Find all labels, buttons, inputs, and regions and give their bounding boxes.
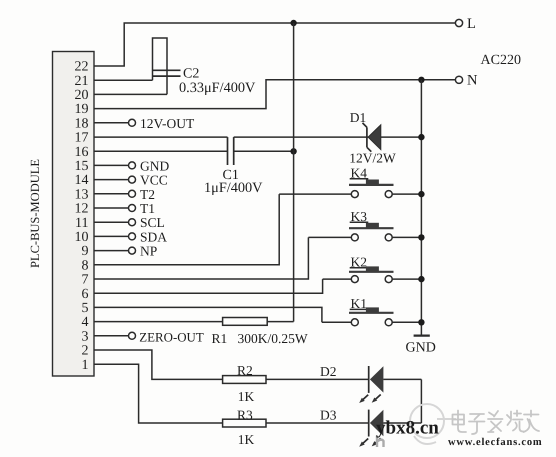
watermark gray h glyph xyxy=(377,436,384,448)
zener diode D1 xyxy=(363,123,381,152)
node K4/bus xyxy=(418,191,424,197)
svg-text:GND: GND xyxy=(406,341,436,356)
svg-text:10: 10 xyxy=(75,230,89,245)
svg-text:R3: R3 xyxy=(237,408,253,423)
resistor R1 xyxy=(94,321,223,323)
svg-text:22: 22 xyxy=(75,60,89,75)
svg-text:4: 4 xyxy=(82,315,89,330)
pin18 terminal 12V-OUT xyxy=(94,122,129,124)
svg-text:15: 15 xyxy=(75,159,89,174)
LED D3 xyxy=(359,410,421,447)
svg-text:ZERO-OUT: ZERO-OUT xyxy=(139,330,204,344)
ground xyxy=(414,335,430,337)
wire R3 to D3 xyxy=(266,422,368,424)
module box PLC-BUS-MODULE xyxy=(53,52,95,377)
switch K3 xyxy=(308,209,421,241)
svg-text:R1: R1 xyxy=(212,331,228,346)
svg-text:GND: GND xyxy=(140,158,169,173)
svg-text:16: 16 xyxy=(75,145,89,160)
svg-text:T1: T1 xyxy=(140,201,155,216)
terminal pins group (GND VCC T2 T1 SCL SDA NP) xyxy=(94,158,169,258)
svg-text:L: L xyxy=(467,16,476,32)
svg-text:SCL: SCL xyxy=(140,215,165,230)
svg-text:300K/0.25W: 300K/0.25W xyxy=(238,331,308,346)
svg-text:ybx8.cn: ybx8.cn xyxy=(376,418,439,439)
svg-text:14: 14 xyxy=(75,173,89,188)
pin numbers xyxy=(75,60,89,373)
svg-text:17: 17 xyxy=(75,131,89,146)
switch K4 xyxy=(279,165,421,197)
wire R2 to D2 xyxy=(266,378,368,380)
node K3/bus xyxy=(418,234,424,240)
svg-text:5: 5 xyxy=(82,301,89,316)
wire pin8 riser to K4 xyxy=(94,194,279,265)
svg-text:18: 18 xyxy=(75,116,89,131)
switch K1 xyxy=(322,296,422,326)
svg-text:12V/2W: 12V/2W xyxy=(349,151,396,166)
svg-text:NP: NP xyxy=(140,244,157,259)
node D1/bus xyxy=(418,134,424,140)
wire pin7 riser to K3 xyxy=(94,237,308,279)
pin3 terminal ZERO-OUT xyxy=(94,335,129,337)
svg-text:R2: R2 xyxy=(237,363,253,378)
svg-text:N: N xyxy=(467,73,478,89)
wire pin16 xyxy=(94,150,228,152)
svg-text:T2: T2 xyxy=(140,187,155,202)
LED D2 xyxy=(359,366,421,403)
switch K2 xyxy=(323,254,422,282)
node junction N rail / bus xyxy=(418,77,424,83)
node K2/bus xyxy=(418,276,424,282)
pin14 VCC xyxy=(94,173,168,188)
terminal L xyxy=(455,19,462,26)
wire D2/D3 join xyxy=(420,379,422,423)
svg-text:19: 19 xyxy=(75,102,89,117)
svg-text:D3: D3 xyxy=(320,408,337,423)
svg-text:AC220: AC220 xyxy=(481,53,521,68)
svg-text:2: 2 xyxy=(82,344,89,359)
svg-text:D1: D1 xyxy=(350,110,367,125)
watermark logo xyxy=(410,404,456,444)
wire pin19 to N rail xyxy=(94,80,455,109)
svg-text:VCC: VCC xyxy=(140,173,168,188)
svg-text:1: 1 xyxy=(82,358,89,373)
svg-text:12V-OUT: 12V-OUT xyxy=(140,116,195,131)
resistor R3 xyxy=(223,419,266,427)
svg-text:21: 21 xyxy=(75,74,89,89)
svg-text:13: 13 xyxy=(75,187,89,202)
pin12 T1 xyxy=(94,201,155,216)
svg-text:11: 11 xyxy=(75,216,88,231)
pin10 SDA xyxy=(94,229,167,244)
svg-text:1K: 1K xyxy=(238,432,255,447)
svg-text:PLC-BUS-MODULE: PLC-BUS-MODULE xyxy=(28,159,42,268)
pin13 T2 xyxy=(94,187,155,202)
svg-text:8: 8 xyxy=(82,258,89,273)
node junction pin16 riser xyxy=(290,148,296,154)
pin15 GND xyxy=(94,158,169,173)
node junction on L rail xyxy=(290,20,296,26)
svg-text:D2: D2 xyxy=(320,364,337,379)
capacitor C2 xyxy=(153,38,181,94)
svg-text:3: 3 xyxy=(82,329,89,344)
right bus wire xyxy=(420,80,422,336)
watermark chinese xyxy=(453,411,540,435)
svg-text:12: 12 xyxy=(75,202,89,217)
svg-text:www.elecfans.com: www.elecfans.com xyxy=(448,437,542,448)
capacitor C1 xyxy=(228,137,234,165)
wire pin2 to R2 xyxy=(94,350,223,379)
wire pin17 / D1 net xyxy=(94,136,228,138)
terminal N xyxy=(455,76,462,83)
svg-text:6: 6 xyxy=(82,287,89,302)
wire pin21 xyxy=(94,79,153,81)
svg-text:7: 7 xyxy=(82,273,89,288)
svg-text:20: 20 xyxy=(75,88,89,103)
resistor R2 xyxy=(223,376,266,384)
svg-text:1K: 1K xyxy=(238,389,255,404)
node K1/bus xyxy=(418,319,424,325)
svg-text:0.33μF/400V: 0.33μF/400V xyxy=(179,80,256,96)
wire riser L to R1 xyxy=(293,23,295,322)
svg-text:9: 9 xyxy=(82,244,89,259)
wire pin5 riser to K1 xyxy=(94,307,322,322)
svg-text:SDA: SDA xyxy=(140,229,167,244)
svg-text:1μF/400V: 1μF/400V xyxy=(204,180,263,196)
wire pin20 xyxy=(94,93,167,95)
wire pin1 to R3 xyxy=(94,364,223,423)
pin9 NP xyxy=(94,244,157,259)
wire pin6 riser to K2 xyxy=(94,279,323,293)
pin11 SCL xyxy=(94,215,165,230)
wire pin22 to top rail xyxy=(94,23,455,66)
